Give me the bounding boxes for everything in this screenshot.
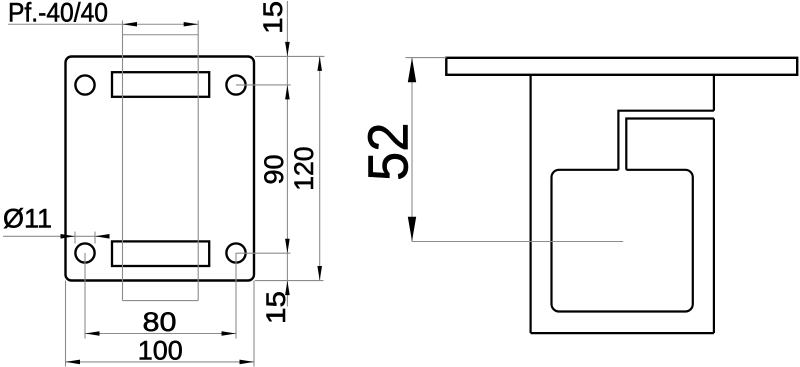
tick left hole tangent — [74, 232, 76, 244]
extension line plate-right down — [253, 281, 255, 367]
leader line Ø11 — [3, 235, 108, 237]
svg-text:Ø11: Ø11 — [3, 204, 52, 234]
flange (side view top plate) — [446, 58, 797, 75]
dimension line Pf.-40/40 — [8, 23, 198, 25]
extension line hole-top-right — [236, 84, 291, 86]
arrow up 120 — [317, 56, 322, 71]
arrow up at top hole line — [285, 85, 290, 100]
dimension line 52 — [411, 58, 413, 242]
extension line plate-bottom right — [255, 280, 324, 282]
svg-text:100: 100 — [138, 336, 183, 366]
extension line flange top — [406, 57, 447, 59]
svg-text:52: 52 — [357, 123, 421, 182]
extension line plate-top right — [255, 55, 325, 57]
extension line plate-left down — [65, 281, 67, 367]
plate outline (100x120 base plate, front view) — [66, 57, 255, 281]
arrow down at bottom hole line — [285, 239, 290, 254]
extension line hole-bottom-right — [236, 252, 290, 254]
svg-text:120: 120 — [289, 146, 319, 190]
body bottom edge — [531, 332, 714, 334]
svg-text:15: 15 — [261, 291, 291, 324]
dimension line 100 — [66, 361, 255, 363]
slit upper wall — [618, 111, 714, 170]
arrow up at plate bottom — [285, 281, 290, 296]
slot bottom — [112, 241, 209, 266]
dimension line 15/90/15 — [286, 1, 288, 307]
arrow up 52 — [408, 58, 416, 83]
arrow 100 right — [240, 360, 255, 365]
hole bottom-right — [226, 243, 245, 262]
arrow Ø11 right — [95, 234, 110, 239]
slot top — [112, 72, 209, 97]
post 40/40 outline (thin) — [123, 21, 199, 301]
body right edge upper — [713, 75, 715, 111]
hole top-right — [226, 75, 245, 94]
center leader line — [412, 241, 623, 243]
arrow down 52 — [408, 217, 416, 242]
extension line hole-left down — [84, 253, 86, 339]
slit lower wall — [626, 119, 714, 170]
hole bottom-left — [75, 243, 94, 262]
inner square tube — [552, 170, 693, 312]
arrow right (40 dim) — [184, 22, 199, 27]
arrow left (40 dim) — [123, 22, 138, 27]
dimension line 80 — [85, 333, 236, 335]
arrow Ø11 left — [61, 234, 76, 239]
dimension line 120 — [319, 56, 321, 280]
svg-text:15: 15 — [258, 1, 288, 34]
hole top-left — [75, 75, 94, 94]
body left edge — [529, 75, 531, 333]
arrow 80 left — [85, 331, 100, 336]
arrow 100 left — [66, 360, 81, 365]
svg-text:80: 80 — [143, 307, 177, 337]
extension line hole-right down — [235, 253, 237, 339]
body right edge lower — [713, 119, 715, 334]
arrow down 120 — [317, 266, 322, 281]
tick right hole tangent — [94, 232, 96, 244]
arrow 80 right — [222, 331, 237, 336]
arrow down at plate top — [285, 42, 290, 57]
svg-text:Pf.-40/40: Pf.-40/40 — [8, 0, 108, 28]
svg-text:90: 90 — [259, 154, 289, 184]
